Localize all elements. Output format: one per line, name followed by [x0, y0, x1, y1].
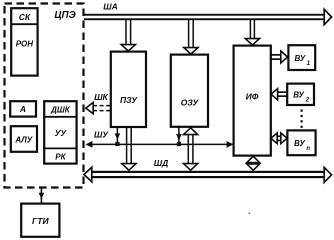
accumulator A — [10, 101, 36, 116]
svg-text:УУ: УУ — [55, 128, 68, 138]
bus drop ПЗУ to ШД — [122, 127, 136, 170]
svg-text:ВУ: ВУ — [294, 139, 305, 148]
bus drop ША to ИФ — [245, 20, 259, 45]
svg-text:ШУ: ШУ — [94, 129, 109, 139]
bus drop ША to ОЗУ — [184, 20, 198, 54]
svg-text:СК: СК — [19, 12, 31, 22]
svg-text:ИФ: ИФ — [246, 92, 259, 102]
svg-text:ЦПЭ: ЦПЭ — [54, 10, 75, 21]
bus drop ША to ПЗУ — [121, 20, 135, 51]
external device ВУ1 — [288, 45, 315, 70]
svg-text:ШК: ШК — [94, 92, 108, 102]
svg-text:ША: ША — [103, 2, 117, 12]
dotted line between ВУ2 and ВУn — [301, 110, 303, 130]
wire ПЗУ to ШУ — [115, 127, 121, 146]
wire ОЗУ to ШУ — [176, 127, 182, 146]
svg-text:РОН: РОН — [16, 40, 34, 49]
svg-text:ДШК: ДШК — [50, 105, 71, 114]
data bus ШД — [84, 158, 332, 182]
svg-text:А: А — [19, 104, 26, 114]
svg-text:ВУ: ВУ — [293, 91, 304, 100]
svg-text:2: 2 — [305, 97, 310, 103]
bus link ОЗУ to ШД both directions — [184, 128, 198, 171]
svg-text:РК: РК — [55, 152, 66, 161]
svg-text:n: n — [306, 146, 310, 152]
svg-text:АЛУ: АЛУ — [14, 136, 32, 145]
bus link ИФ to ШД both directions — [247, 156, 260, 170]
RAM ОЗУ — [171, 55, 208, 127]
clock generator ГТИ — [21, 204, 59, 237]
command bus ШК dashed arrow ПЗУ to ЦПЭ — [86, 92, 111, 114]
ALU АЛУ — [11, 126, 37, 152]
svg-text:ПЗУ: ПЗУ — [120, 95, 138, 105]
address bus ША — [84, 2, 332, 25]
control block ДШК/УУ/РК — [44, 101, 76, 163]
speck — [249, 213, 251, 215]
ROM ПЗУ — [111, 52, 146, 127]
bus link ВУ2 to ИФ — [271, 89, 287, 100]
external device ВУn — [287, 130, 315, 155]
wire CPU to GTI with arrow — [39, 189, 45, 204]
interface ИФ — [234, 46, 271, 156]
control bus ШУ — [86, 129, 234, 148]
bus link ИФ to ВУn both directions — [271, 133, 287, 144]
svg-text:ВУ: ВУ — [294, 54, 305, 63]
external device ВУ2 — [287, 84, 314, 105]
CPU dashed box ЦПЭ — [5, 4, 84, 188]
svg-text:ШД: ШД — [154, 158, 168, 168]
bus link ИФ to ВУ1 — [271, 51, 288, 63]
svg-text:ОЗУ: ОЗУ — [181, 98, 200, 108]
register block СК/РОН — [11, 8, 37, 75]
svg-text:ГТИ: ГТИ — [32, 216, 49, 226]
